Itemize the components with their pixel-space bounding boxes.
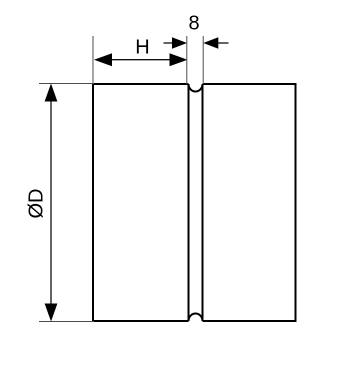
svg-text:ØD: ØD (26, 189, 48, 219)
8 arrow right (203, 37, 218, 49)
right body outline (203, 84, 296, 321)
H dimension line (105, 59, 177, 61)
svg-text:H: H (135, 37, 149, 59)
bottom bead arc (189, 314, 203, 321)
H arrow right (170, 53, 188, 66)
extension line top-left (OD) (39, 83, 94, 85)
extension line H left (92, 36, 94, 83)
extension line 8 left (186, 36, 188, 84)
top bead arc (189, 84, 203, 92)
H arrow left (94, 53, 112, 66)
8 arrow left (172, 37, 187, 49)
gap right wall (202, 84, 204, 321)
left body outline (93, 84, 189, 321)
svg-text:8: 8 (188, 13, 199, 35)
gap left wall (188, 84, 190, 321)
OD arrow up (45, 84, 58, 102)
8 leader left tail (164, 42, 174, 44)
extension line bottom-left (OD) (39, 321, 94, 323)
8 leader right tail (218, 42, 229, 44)
OD dimension line (50, 95, 52, 310)
OD arrow down (45, 304, 58, 322)
extension line 8 right (202, 36, 204, 84)
